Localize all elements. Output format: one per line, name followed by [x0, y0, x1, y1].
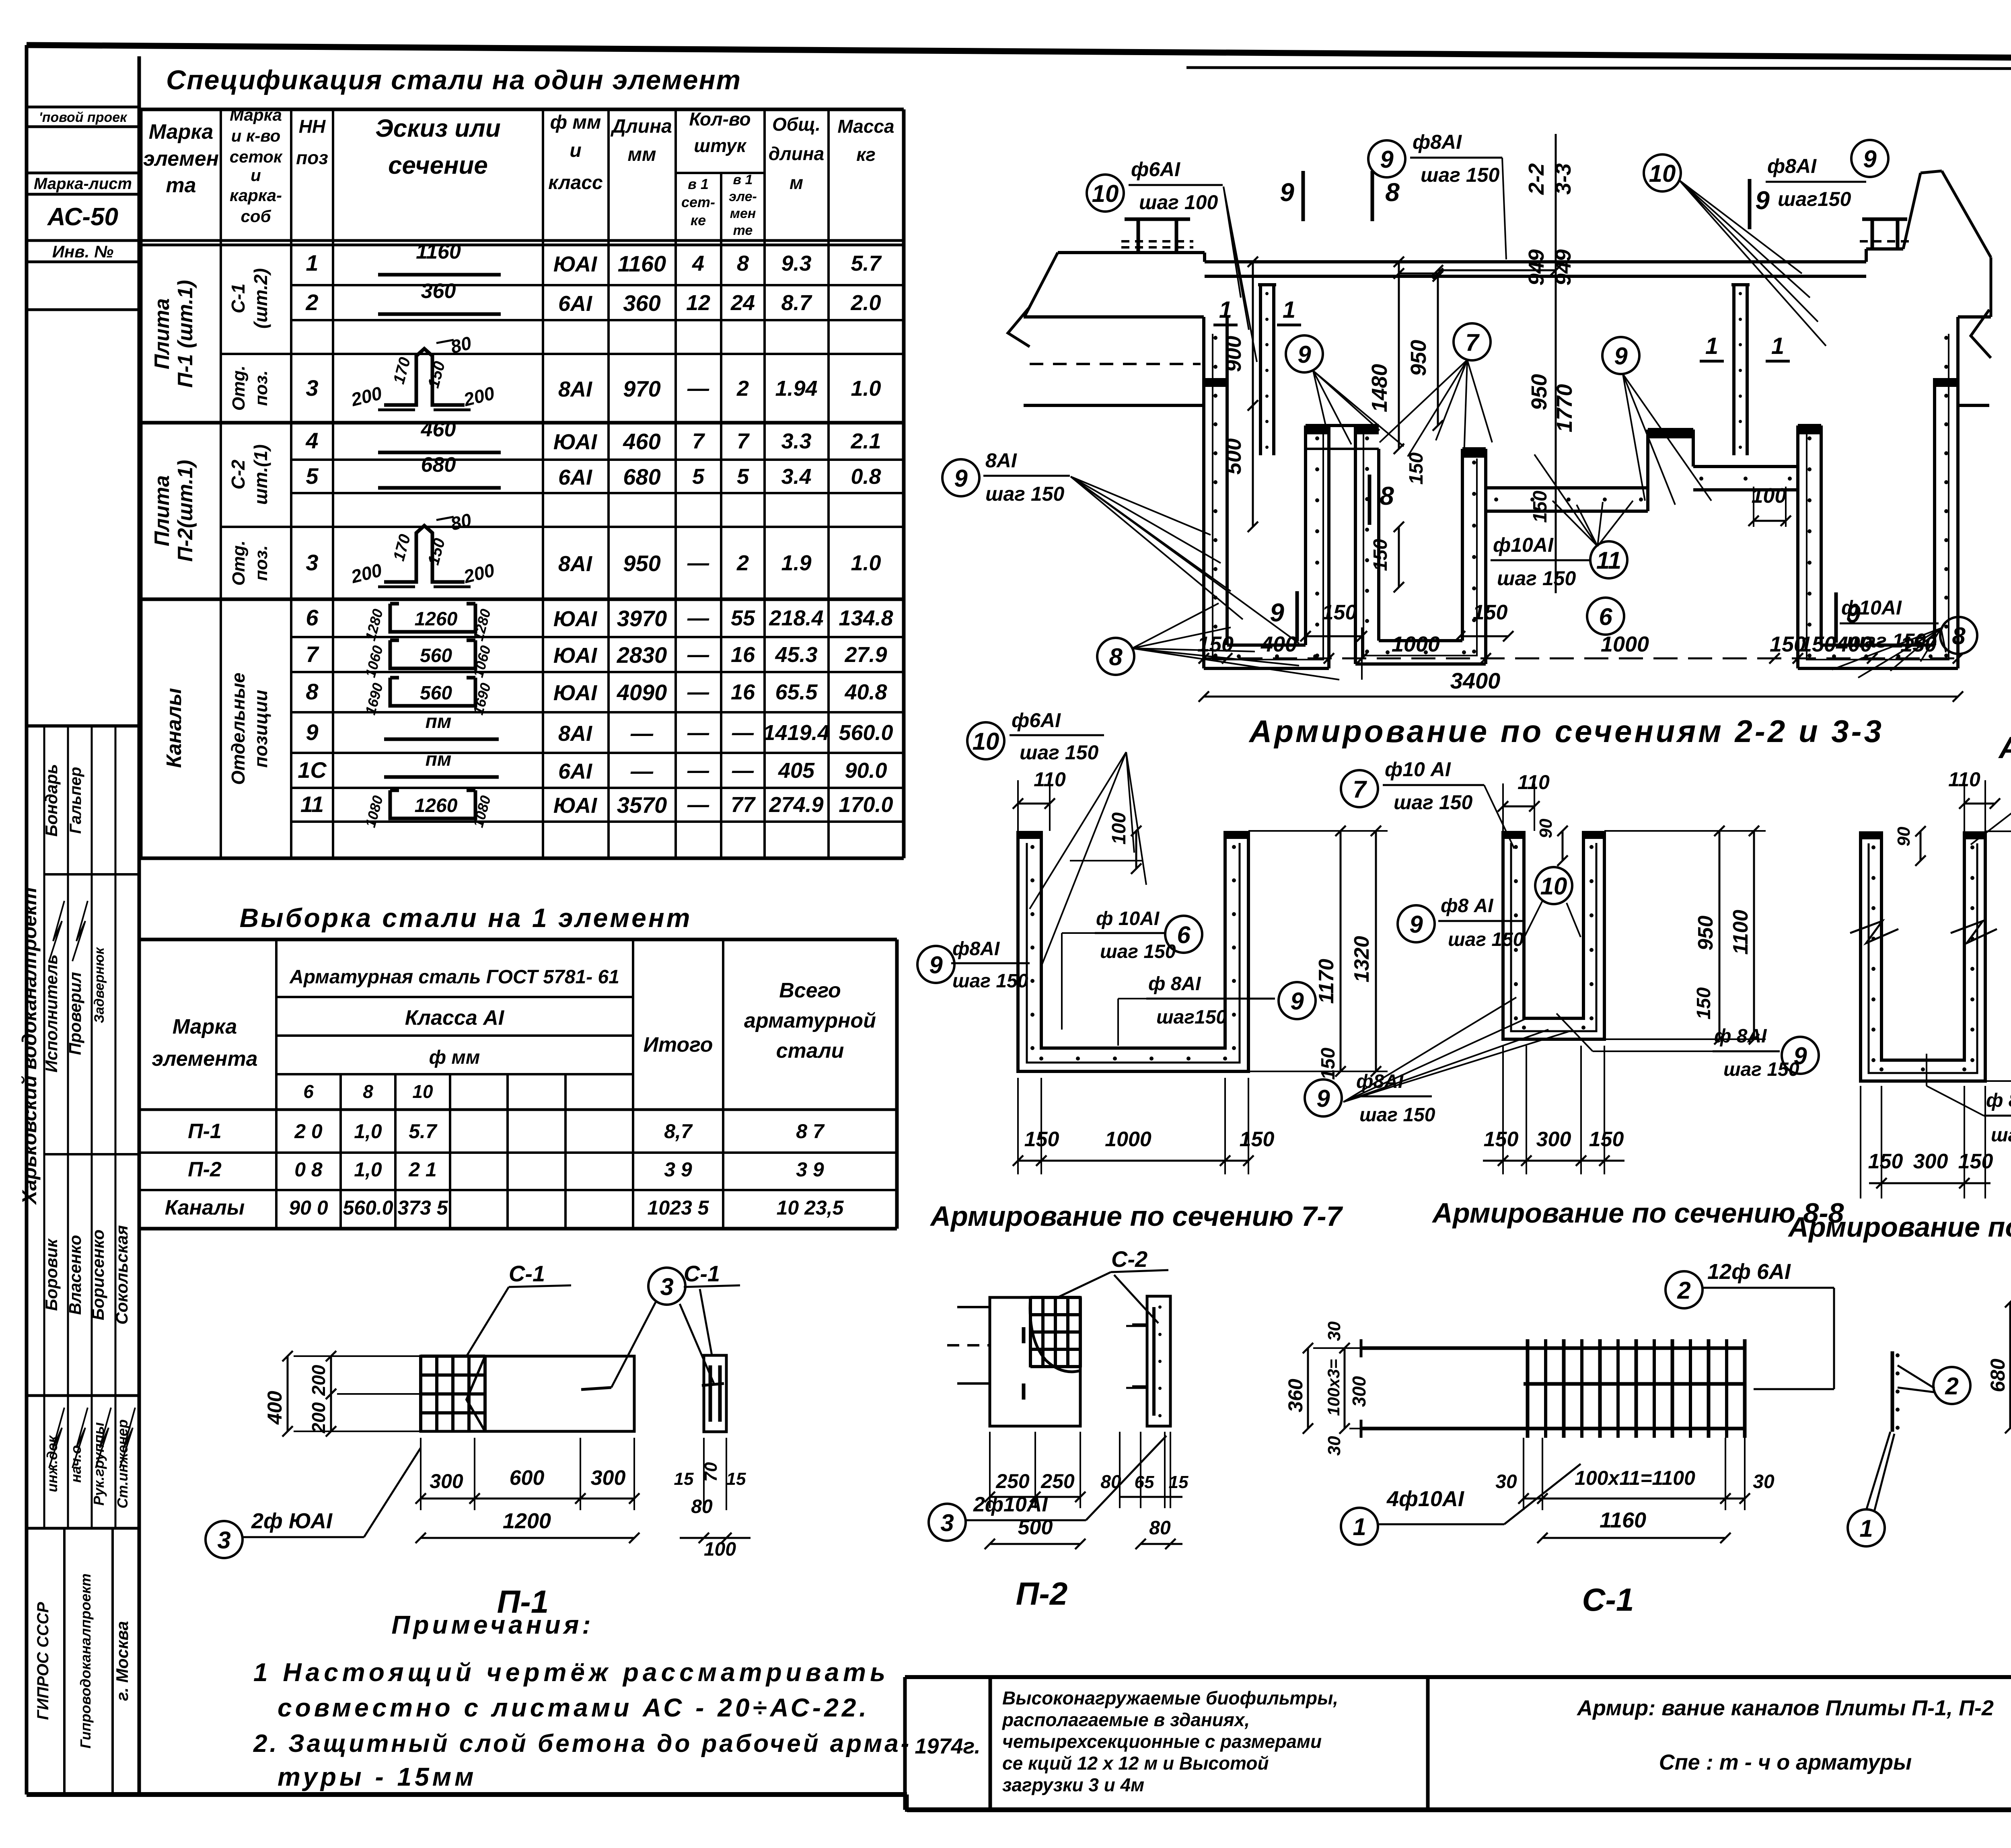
svg-text:Итого: Итого: [644, 1033, 713, 1057]
svg-text:Армирование по сечению 8-8: Армирование по сечению 8-8: [1431, 1197, 1844, 1229]
svg-text:360: 360: [421, 280, 456, 303]
svg-text:Плита: Плита: [150, 475, 174, 547]
svg-text:1480: 1480: [1367, 364, 1392, 412]
svg-text:Кол-во: Кол-во: [689, 109, 751, 130]
svg-text:шаг 150: шаг 150: [1100, 941, 1176, 962]
svg-text:100: 100: [1752, 484, 1787, 508]
svg-text:65: 65: [1135, 1472, 1154, 1492]
svg-text:—: —: [687, 376, 709, 401]
svg-text:400: 400: [263, 1391, 286, 1425]
svg-text:3-3: 3-3: [1551, 163, 1575, 195]
svg-text:—: —: [687, 606, 709, 630]
svg-text:9.3: 9.3: [781, 251, 811, 275]
svg-text:300: 300: [1913, 1150, 1948, 1173]
svg-text:1320: 1320: [1350, 936, 1374, 983]
svg-text:шаг 150: шаг 150: [1448, 929, 1524, 950]
svg-text:4: 4: [305, 428, 318, 453]
svg-text:класс: класс: [548, 172, 602, 193]
svg-text:Гипроводоканалпроект: Гипроводоканалпроект: [77, 1573, 94, 1748]
svg-text:5.7: 5.7: [851, 251, 882, 275]
svg-text:4ф10АІ: 4ф10АІ: [1386, 1487, 1464, 1511]
svg-text:1000: 1000: [1105, 1128, 1151, 1151]
svg-text:2ф ЮАІ: 2ф ЮАІ: [251, 1509, 333, 1533]
svg-text:7: 7: [737, 429, 750, 453]
svg-text:150: 150: [1484, 1128, 1519, 1151]
svg-text:Общ.: Общ.: [772, 114, 820, 135]
svg-text:2 0: 2 0: [294, 1120, 323, 1143]
svg-text:ЮАІ: ЮАІ: [553, 681, 597, 705]
svg-text:1,0: 1,0: [354, 1158, 382, 1181]
svg-text:нач.о: нач.о: [68, 1445, 84, 1482]
svg-text:пм: пм: [426, 711, 452, 732]
svg-text:8: 8: [1385, 178, 1400, 207]
svg-text:ф10АІ: ф10АІ: [1493, 534, 1554, 556]
svg-text:2: 2: [305, 290, 318, 315]
svg-text:2: 2: [1945, 1373, 1958, 1400]
svg-text:949: 949: [1551, 249, 1575, 286]
svg-text:9: 9: [1863, 146, 1877, 173]
svg-text:Марка-лист: Марка-лист: [34, 175, 132, 193]
svg-text:1: 1: [1283, 297, 1295, 323]
svg-text:300: 300: [430, 1470, 463, 1492]
svg-text:30: 30: [1324, 1436, 1344, 1455]
svg-text:карка-: карка-: [230, 186, 282, 205]
svg-text:8 7: 8 7: [796, 1120, 825, 1143]
svg-text:1,0: 1,0: [354, 1120, 382, 1143]
svg-text:ф8АІ: ф8АІ: [1767, 155, 1817, 177]
svg-text:11: 11: [300, 791, 324, 817]
svg-text:шаг 150: шаг 150: [1421, 164, 1499, 186]
svg-text:Армир: вание каналов Пл: Армир: вание каналов Плиты П-1, П-2: [1576, 1696, 1994, 1720]
svg-text:С-2: С-2: [228, 460, 249, 490]
svg-text:Марка: Марка: [230, 105, 282, 124]
svg-text:пм: пм: [426, 749, 452, 770]
svg-text:55: 55: [731, 606, 755, 630]
svg-text:90: 90: [1536, 818, 1556, 838]
svg-text:3.4: 3.4: [781, 465, 811, 489]
svg-text:8: 8: [1109, 643, 1123, 670]
svg-text:сеток: сеток: [230, 147, 283, 166]
svg-text:680: 680: [421, 453, 456, 477]
svg-text:150: 150: [1240, 1128, 1275, 1151]
svg-text:ф 8АІ: ф 8АІ: [1714, 1026, 1767, 1047]
svg-text:6: 6: [1599, 603, 1612, 630]
svg-text:ф6АІ: ф6АІ: [1012, 709, 1061, 732]
svg-text:400: 400: [1836, 632, 1872, 656]
svg-text:150: 150: [1693, 987, 1715, 1020]
svg-text:1200: 1200: [503, 1509, 551, 1533]
svg-text:30: 30: [1753, 1471, 1775, 1492]
svg-text:373 5: 373 5: [397, 1196, 448, 1219]
svg-text:560.0: 560.0: [839, 721, 893, 745]
svg-text:се кций 12 х 12 м и Высотой: се кций 12 х 12 м и Высотой: [1002, 1753, 1269, 1774]
svg-text:1 Настоящий чертёж рассмат: 1 Настоящий чертёж рассматривать: [253, 1658, 889, 1687]
svg-text:7: 7: [306, 641, 319, 667]
svg-text:мен: мен: [730, 206, 756, 221]
svg-text:100: 100: [704, 1539, 736, 1560]
svg-text:9: 9: [1280, 178, 1294, 207]
svg-text:Каналы: Каналы: [162, 688, 186, 768]
svg-text:элемен: элемен: [143, 147, 219, 171]
svg-text:3970: 3970: [617, 606, 667, 631]
svg-text:680: 680: [1986, 1359, 2009, 1392]
svg-text:1.9: 1.9: [781, 551, 811, 575]
svg-text:200: 200: [308, 1402, 329, 1433]
svg-text:7: 7: [1353, 776, 1367, 803]
svg-text:шаг 150: шаг 150: [1394, 791, 1472, 814]
svg-text:300: 300: [591, 1466, 626, 1490]
svg-text:9: 9: [1290, 988, 1304, 1015]
svg-text:располагаемые в зданиях,: располагаемые в зданиях,: [1001, 1709, 1250, 1730]
svg-text:П-2(шт.1): П-2(шт.1): [174, 460, 197, 561]
svg-text:40.8: 40.8: [844, 680, 887, 704]
svg-text:134.8: 134.8: [839, 606, 893, 630]
svg-text:80: 80: [691, 1496, 713, 1517]
svg-text:'повой проек: 'повой проек: [39, 110, 128, 125]
svg-text:9: 9: [1755, 186, 1770, 215]
svg-text:м: м: [790, 172, 803, 193]
svg-text:четырехсекционные с размерами: четырехсекционные с размерами: [1002, 1731, 1322, 1752]
svg-text:Отg.: Отg.: [229, 541, 249, 586]
svg-text:1160: 1160: [1600, 1508, 1646, 1532]
svg-text:ф мм: ф мм: [429, 1047, 480, 1068]
svg-text:2: 2: [736, 376, 749, 401]
svg-text:1: 1: [1771, 333, 1784, 359]
svg-text:1023 5: 1023 5: [648, 1196, 709, 1219]
svg-text:Гальпер: Гальпер: [67, 767, 84, 834]
svg-text:77: 77: [731, 793, 756, 817]
svg-text:Спе : т - ч о армат: Спе : т - ч о арматуры: [1659, 1750, 1912, 1774]
svg-text:1С: 1С: [298, 757, 327, 783]
svg-text:15: 15: [674, 1469, 694, 1489]
svg-text:соб: соб: [241, 207, 271, 226]
svg-text:1974г.: 1974г.: [915, 1734, 980, 1758]
svg-text:4090: 4090: [617, 680, 667, 705]
svg-text:шаг 150: шаг 150: [1359, 1104, 1435, 1126]
svg-text:30: 30: [1324, 1321, 1344, 1341]
svg-text:1000: 1000: [1601, 632, 1649, 656]
svg-text:—: —: [687, 680, 709, 704]
svg-text:8АІ: 8АІ: [558, 552, 592, 576]
svg-text:Армирование по сечениям 2-2: Армирование по сечениям 2-2 и 3-3: [1248, 713, 1884, 749]
svg-text:1: 1: [306, 250, 318, 275]
svg-text:Инв. №: Инв. №: [52, 242, 113, 261]
svg-text:6: 6: [303, 1081, 314, 1102]
svg-text:2.1: 2.1: [850, 429, 881, 453]
svg-text:1.0: 1.0: [851, 376, 881, 401]
svg-text:10 23,5: 10 23,5: [777, 1196, 844, 1219]
svg-text:Всего: Всего: [779, 979, 841, 1002]
svg-text:8АІ: 8АІ: [558, 377, 592, 401]
svg-text:100x11=1100: 100x11=1100: [1575, 1467, 1695, 1489]
svg-text:—: —: [687, 759, 709, 783]
svg-text:1160: 1160: [416, 240, 461, 263]
svg-text:поз.: поз.: [251, 370, 271, 406]
svg-text:949: 949: [1524, 249, 1548, 286]
svg-text:ф6АІ: ф6АІ: [1131, 158, 1180, 181]
svg-text:1260: 1260: [415, 795, 458, 816]
svg-text:11: 11: [1596, 547, 1621, 574]
svg-text:штук: штук: [694, 135, 747, 156]
svg-text:6: 6: [306, 605, 319, 630]
svg-text:ЮАІ: ЮАІ: [553, 793, 597, 818]
svg-text:680: 680: [623, 464, 660, 489]
svg-text:5: 5: [737, 465, 749, 489]
svg-text:150: 150: [1024, 1128, 1059, 1151]
svg-text:Харьковский водоканалпроект: Харьковский водоканалпроект: [18, 887, 41, 1205]
svg-text:250: 250: [995, 1470, 1030, 1492]
svg-text:П-2: П-2: [1016, 1576, 1068, 1612]
svg-text:90.0: 90.0: [845, 759, 887, 783]
svg-text:1770: 1770: [1552, 384, 1577, 432]
svg-text:шаг 150: шаг 150: [1020, 741, 1098, 764]
svg-text:150: 150: [1370, 539, 1391, 571]
svg-text:8: 8: [363, 1081, 373, 1102]
svg-text:Боровик: Боровик: [42, 1238, 61, 1311]
svg-text:Каналы: Каналы: [165, 1196, 245, 1219]
svg-text:в 1: в 1: [688, 176, 709, 192]
svg-text:НН: НН: [299, 116, 326, 137]
svg-text:250: 250: [1040, 1470, 1075, 1492]
svg-text:ф 8АІ: ф 8АІ: [1148, 973, 1201, 995]
svg-text:ф 8АІ: ф 8АІ: [1986, 1090, 2011, 1111]
svg-text:совместно с листами АС - 20÷АС: совместно с листами АС - 20÷АС-22.: [278, 1693, 870, 1722]
svg-text:8.7: 8.7: [781, 291, 812, 315]
svg-text:90: 90: [1894, 826, 1914, 846]
svg-text:Исполнитель: Исполнитель: [42, 954, 61, 1073]
svg-text:АС-50: АС-50: [47, 203, 118, 231]
svg-text:С-1: С-1: [684, 1261, 720, 1286]
svg-text:150: 150: [1473, 601, 1508, 624]
svg-text:6: 6: [1177, 921, 1191, 948]
svg-text:стали: стали: [776, 1039, 844, 1063]
svg-text:Власенко: Власенко: [66, 1235, 84, 1315]
svg-text:2 1: 2 1: [408, 1158, 437, 1181]
svg-text:3: 3: [306, 375, 318, 401]
svg-text:9: 9: [1614, 343, 1628, 370]
svg-text:шаг 150: шаг 150: [952, 970, 1028, 992]
svg-text:65.5: 65.5: [775, 680, 818, 704]
svg-text:и: и: [570, 140, 581, 161]
svg-text:950: 950: [623, 551, 660, 576]
svg-text:15: 15: [726, 1469, 746, 1489]
svg-text:8,7: 8,7: [664, 1120, 693, 1143]
svg-text:1160: 1160: [618, 251, 666, 276]
svg-text:950: 950: [1694, 916, 1717, 951]
svg-text:3 9: 3 9: [796, 1158, 824, 1181]
svg-text:Задвернюк: Задвернюк: [92, 947, 107, 1023]
svg-text:45.3: 45.3: [775, 643, 817, 667]
svg-text:инж.дек: инж.дек: [44, 1435, 60, 1492]
svg-text:80: 80: [1100, 1471, 1121, 1492]
svg-text:ке: ке: [691, 212, 706, 228]
svg-text:274.9: 274.9: [769, 793, 823, 817]
svg-text:загрузки 3 и 4м: загрузки 3 и 4м: [1002, 1774, 1144, 1795]
svg-text:кг: кг: [856, 144, 876, 165]
svg-text:ф мм: ф мм: [550, 112, 601, 133]
svg-text:П-1 (шт.1): П-1 (шт.1): [174, 280, 197, 388]
svg-text:—: —: [687, 551, 709, 575]
svg-text:300: 300: [1536, 1128, 1571, 1151]
svg-text:1260: 1260: [415, 608, 458, 630]
svg-text:С-2: С-2: [1111, 1246, 1147, 1272]
svg-text:поз: поз: [296, 147, 328, 168]
svg-text:8: 8: [1952, 623, 1966, 650]
svg-text:405: 405: [778, 759, 815, 783]
svg-text:2830: 2830: [617, 642, 667, 668]
svg-text:360: 360: [623, 290, 660, 316]
svg-text:Рук.группы: Рук.группы: [90, 1422, 107, 1506]
svg-text:1100: 1100: [1729, 910, 1752, 955]
svg-text:Армирование по сечению 7-7: Армирование по сечению 7-7: [929, 1200, 1343, 1232]
svg-text:П-2: П-2: [188, 1158, 222, 1181]
svg-text:12: 12: [686, 291, 710, 315]
svg-text:9: 9: [1316, 1085, 1330, 1112]
svg-text:150: 150: [1958, 1150, 1993, 1173]
svg-text:Марка: Марка: [173, 1015, 237, 1038]
svg-text:Марка: Марка: [149, 120, 214, 144]
svg-text:элемента: элемента: [152, 1047, 257, 1071]
svg-text:150: 150: [1197, 632, 1234, 656]
svg-text:8АІ: 8АІ: [985, 449, 1017, 472]
svg-text:560.0: 560.0: [343, 1196, 393, 1219]
svg-text:5: 5: [306, 463, 319, 489]
svg-text:шаг 150: шаг 150: [1723, 1059, 1799, 1080]
svg-text:200: 200: [308, 1365, 329, 1396]
svg-text:Высоконагружаемые биофильтры,: Высоконагружаемые биофильтры,: [1002, 1688, 1338, 1708]
svg-text:15: 15: [1169, 1472, 1189, 1492]
svg-text:10: 10: [1540, 873, 1567, 900]
svg-text:1170: 1170: [1315, 959, 1338, 1004]
svg-text:ф8АІ: ф8АІ: [952, 938, 1000, 960]
svg-text:Эскиз или: Эскиз или: [375, 115, 501, 142]
svg-text:и: и: [251, 166, 261, 185]
svg-text:8: 8: [737, 251, 749, 275]
svg-text:9: 9: [1297, 341, 1311, 368]
svg-text:ф 10АІ: ф 10АІ: [1096, 908, 1160, 929]
svg-text:и к-во: и к-во: [231, 126, 281, 145]
svg-text:24: 24: [730, 291, 755, 315]
svg-text:Борисенко: Борисенко: [88, 1229, 107, 1320]
svg-text:1419.4: 1419.4: [763, 721, 829, 745]
svg-text:шаг 150: шаг 150: [985, 483, 1064, 505]
svg-text:3400: 3400: [1450, 668, 1501, 693]
svg-text:С-1: С-1: [228, 284, 249, 313]
svg-text:0 8: 0 8: [294, 1158, 323, 1181]
svg-text:10: 10: [1649, 160, 1676, 187]
svg-text:9: 9: [954, 465, 968, 492]
svg-text:10: 10: [973, 728, 999, 755]
svg-text:ЮАІ: ЮАІ: [553, 607, 597, 631]
svg-text:позиции: позиции: [250, 690, 271, 768]
svg-text:80: 80: [1149, 1517, 1171, 1539]
svg-text:та: та: [166, 174, 196, 197]
svg-text:170.0: 170.0: [839, 793, 893, 817]
svg-text:12ф 6АІ: 12ф 6АІ: [1707, 1260, 1791, 1284]
svg-text:560: 560: [420, 645, 452, 666]
svg-text:—: —: [630, 720, 654, 746]
svg-text:218.4: 218.4: [769, 606, 823, 630]
svg-text:г. Москва: г. Москва: [113, 1621, 132, 1701]
svg-text:10: 10: [412, 1081, 433, 1102]
svg-text:(шт.2): (шт.2): [250, 268, 271, 329]
svg-text:9: 9: [1409, 911, 1423, 938]
svg-text:ЮАІ: ЮАІ: [553, 430, 597, 454]
svg-text:Отg.: Отg.: [229, 366, 249, 411]
svg-text:—: —: [732, 721, 754, 745]
svg-text:5: 5: [692, 465, 705, 489]
svg-text:150: 150: [1322, 601, 1357, 624]
svg-text:400: 400: [1260, 632, 1297, 656]
svg-text:9: 9: [1380, 146, 1394, 173]
svg-text:1.94: 1.94: [775, 376, 817, 401]
svg-text:сет-: сет-: [681, 194, 715, 210]
svg-text:—: —: [732, 759, 754, 783]
svg-text:ЮАІ: ЮАІ: [553, 252, 597, 276]
svg-text:Плита: Плита: [150, 298, 174, 370]
svg-text:шаг 100: шаг 100: [1139, 191, 1218, 214]
svg-text:шаг150: шаг150: [1156, 1007, 1227, 1028]
svg-text:4: 4: [692, 251, 704, 275]
svg-text:Отдельные: Отдельные: [228, 672, 249, 785]
svg-text:5.7: 5.7: [409, 1120, 438, 1143]
svg-text:150: 150: [1868, 1150, 1903, 1173]
svg-text:ЮАІ: ЮАІ: [553, 643, 597, 668]
svg-text:Бондарь: Бондарь: [42, 764, 61, 837]
svg-text:7: 7: [1465, 329, 1480, 356]
svg-text:1: 1: [1859, 1515, 1873, 1542]
svg-text:9: 9: [929, 952, 943, 978]
svg-text:3: 3: [217, 1527, 230, 1554]
svg-text:Сокольская: Сокольская: [112, 1225, 131, 1324]
svg-text:150: 150: [1318, 1048, 1339, 1080]
svg-text:Выборка стали на 1 элемент: Выборка стали на 1 элемент: [240, 903, 692, 933]
svg-text:длина: длина: [769, 143, 825, 164]
svg-text:П-1: П-1: [188, 1120, 222, 1143]
svg-text:Класса АІ: Класса АІ: [405, 1006, 505, 1030]
svg-text:100: 100: [1108, 812, 1130, 845]
svg-text:0.8: 0.8: [851, 465, 881, 489]
svg-text:1: 1: [1353, 1513, 1366, 1540]
svg-text:Длина: Длина: [610, 116, 672, 137]
svg-text:шт.(1): шт.(1): [250, 444, 271, 505]
svg-text:Спецификация стали на один: Спецификация стали на один элемент: [166, 65, 741, 95]
svg-text:500: 500: [1221, 438, 1246, 475]
svg-text:6АІ: 6АІ: [558, 759, 592, 783]
svg-text:150: 150: [1530, 491, 1551, 523]
svg-text:16: 16: [731, 680, 755, 704]
svg-text:2-2: 2-2: [1524, 163, 1548, 195]
svg-text:—: —: [687, 793, 709, 817]
svg-text:2: 2: [736, 551, 749, 575]
svg-text:С-1: С-1: [509, 1261, 545, 1286]
svg-text:100x3=: 100x3=: [1324, 1359, 1343, 1416]
svg-text:2. Защитный слой бетона до: 2. Защитный слой бетона до рабочей арма-: [253, 1730, 911, 1758]
svg-text:—: —: [687, 643, 709, 667]
svg-text:950: 950: [1406, 340, 1431, 376]
svg-text:600: 600: [510, 1466, 545, 1490]
svg-text:3570: 3570: [617, 792, 667, 818]
svg-text:Арматурная сталь ГОСТ 5781- 61: Арматурная сталь ГОСТ 5781- 61: [289, 966, 619, 988]
svg-text:1: 1: [1705, 333, 1718, 359]
svg-text:6АІ: 6АІ: [558, 292, 592, 316]
svg-text:90 0: 90 0: [289, 1196, 328, 1219]
svg-text:Масса: Масса: [837, 116, 894, 137]
svg-text:ф8АІ: ф8АІ: [1413, 131, 1462, 153]
svg-text:970: 970: [623, 376, 660, 401]
svg-text:1.0: 1.0: [851, 551, 881, 575]
svg-text:7: 7: [692, 429, 705, 453]
